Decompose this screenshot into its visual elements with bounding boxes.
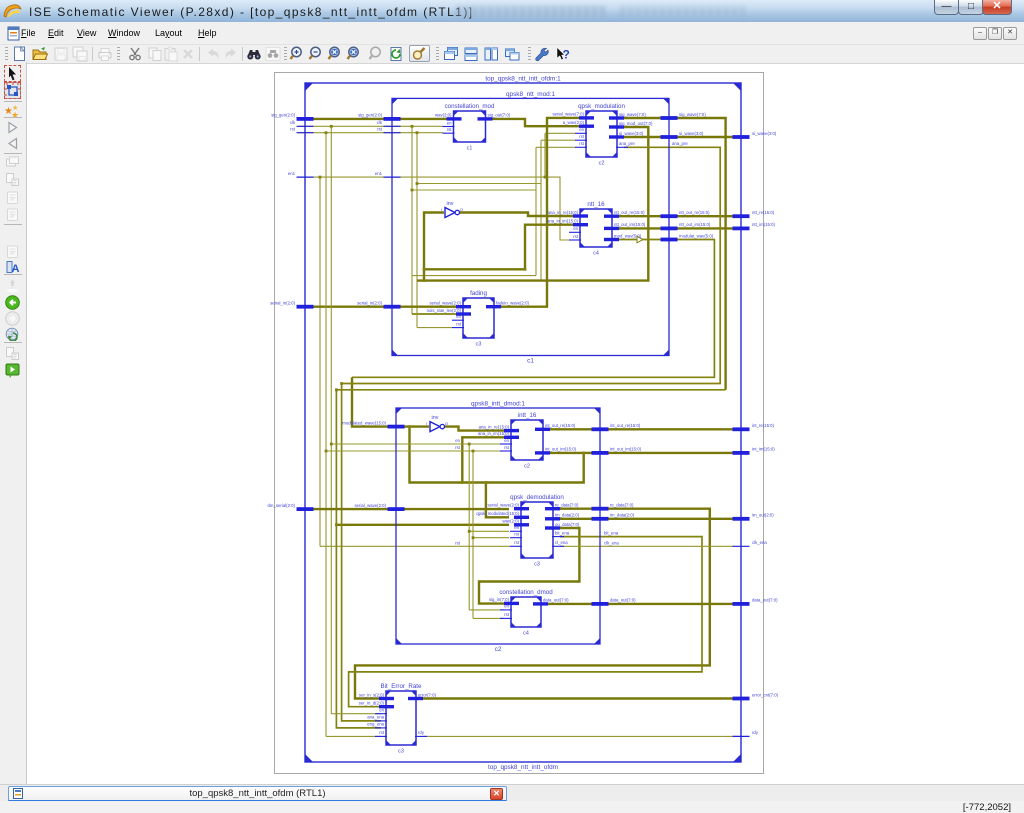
svg-text:inv: inv bbox=[447, 201, 454, 207]
svg-text:sig_gen(2:0): sig_gen(2:0) bbox=[271, 113, 295, 118]
svg-text:en: en bbox=[579, 127, 584, 132]
svg-text:inv: inv bbox=[432, 415, 439, 421]
svg-text:data_out(7:0): data_out(7:0) bbox=[543, 598, 569, 603]
svg-text:ana_in_re(15:0): ana_in_re(15:0) bbox=[479, 424, 510, 429]
svg-text:en: en bbox=[379, 708, 384, 713]
svg-text:wav(2:0): wav(2:0) bbox=[435, 113, 452, 118]
svg-text:I: I bbox=[441, 207, 442, 212]
svg-text:c2: c2 bbox=[495, 646, 502, 653]
svg-text:sig_gen(2:0): sig_gen(2:0) bbox=[358, 113, 382, 118]
svg-text:rst: rst bbox=[573, 234, 579, 239]
svg-text:ntt_out_im(15:0): ntt_out_im(15:0) bbox=[679, 222, 711, 227]
svg-text:a_wav(2:0): a_wav(2:0) bbox=[563, 120, 585, 125]
svg-text:ser_in_d(2:0): ser_in_d(2:0) bbox=[359, 701, 385, 706]
svg-text:si_wave(3:0): si_wave(3:0) bbox=[619, 131, 644, 136]
svg-text:cl_ena: cl_ena bbox=[555, 540, 568, 545]
svg-text:dm_serial(2:0): dm_serial(2:0) bbox=[268, 503, 296, 508]
svg-text:constellation_mod: constellation_mod bbox=[445, 103, 495, 110]
svg-text:data_out(7:0): data_out(7:0) bbox=[752, 598, 778, 603]
svg-text:c4: c4 bbox=[523, 631, 529, 637]
svg-text:rst: rst bbox=[290, 127, 296, 132]
svg-text:re_data(7:0): re_data(7:0) bbox=[555, 503, 579, 508]
svg-text:rst: rst bbox=[455, 445, 461, 450]
svg-text:int_out_im(15:0): int_out_im(15:0) bbox=[545, 447, 577, 452]
svg-text:?: ? bbox=[562, 48, 569, 62]
svg-text:en: en bbox=[514, 525, 519, 530]
svg-text:rdy: rdy bbox=[752, 730, 759, 735]
svg-text:ana_in_im(15:0): ana_in_im(15:0) bbox=[547, 219, 579, 224]
svg-text:rst: rst bbox=[514, 540, 520, 545]
svg-text:clk: clk bbox=[290, 120, 296, 125]
svg-text:ana_in_re(15:0): ana_in_re(15:0) bbox=[548, 210, 579, 215]
svg-text:sig_mod_out(7:0): sig_mod_out(7:0) bbox=[619, 121, 653, 126]
svg-text:ntt_out_re(15:0): ntt_out_re(15:0) bbox=[679, 210, 710, 215]
svg-text:en: en bbox=[456, 314, 461, 319]
svg-text:rst: rst bbox=[379, 730, 385, 735]
svg-text:constellation_dmod: constellation_dmod bbox=[499, 589, 553, 596]
svg-text:sig_wave(7:0): sig_wave(7:0) bbox=[679, 112, 706, 117]
svg-text:si_wave(3:0): si_wave(3:0) bbox=[752, 131, 777, 136]
svg-text:qpsk_demodulation: qpsk_demodulation bbox=[510, 494, 564, 501]
svg-text:int_re(15:0): int_re(15:0) bbox=[752, 423, 775, 428]
svg-text:serial_wave(2:0): serial_wave(2:0) bbox=[354, 503, 386, 508]
svg-text:fadein_wave(2:0): fadein_wave(2:0) bbox=[496, 301, 530, 306]
svg-text:en1: en1 bbox=[375, 171, 383, 176]
svg-text:ou_data(7:0): ou_data(7:0) bbox=[555, 522, 580, 527]
svg-text:ntt_re(15:0): ntt_re(15:0) bbox=[752, 210, 775, 215]
svg-text:★: ★ bbox=[12, 104, 18, 112]
svg-text:c1: c1 bbox=[467, 146, 473, 152]
svg-text:sig_wave(7:0): sig_wave(7:0) bbox=[619, 112, 646, 117]
svg-text:en: en bbox=[447, 120, 452, 125]
svg-text:rst: rst bbox=[456, 321, 462, 326]
svg-text:rst: rst bbox=[579, 141, 585, 146]
svg-text:rst: rst bbox=[377, 127, 383, 132]
svg-text:O: O bbox=[445, 421, 448, 426]
svg-text:mod_wav(5:0): mod_wav(5:0) bbox=[614, 233, 642, 238]
svg-text:bit_ena: bit_ena bbox=[555, 530, 570, 535]
svg-text:eng_ena: eng_ena bbox=[367, 722, 384, 727]
svg-text:im_data(2:0): im_data(2:0) bbox=[555, 513, 580, 518]
svg-text:ntt_16: ntt_16 bbox=[587, 201, 605, 208]
svg-text:en: en bbox=[455, 438, 460, 443]
svg-text:rst: rst bbox=[579, 134, 585, 139]
svg-text:c2: c2 bbox=[599, 161, 605, 167]
svg-text:c3: c3 bbox=[534, 562, 540, 568]
svg-text:ntt_out_re(15:0): ntt_out_re(15:0) bbox=[614, 210, 645, 215]
svg-text:ntt_out_im(15:0): ntt_out_im(15:0) bbox=[614, 222, 646, 227]
svg-text:rst: rst bbox=[455, 541, 461, 546]
svg-text:intt_16: intt_16 bbox=[518, 412, 537, 419]
svg-text:serial_wave(2:0): serial_wave(2:0) bbox=[429, 301, 461, 306]
svg-text:c2: c2 bbox=[524, 464, 530, 470]
svg-text:en: en bbox=[504, 438, 509, 443]
svg-text:clk_ena: clk_ena bbox=[604, 540, 619, 545]
svg-text:fading: fading bbox=[470, 290, 487, 297]
svg-text:I: I bbox=[426, 421, 427, 426]
svg-text:data_out(7:0): data_out(7:0) bbox=[610, 598, 636, 603]
svg-text:int_out_re(15:0): int_out_re(15:0) bbox=[545, 423, 576, 428]
svg-text:A: A bbox=[12, 263, 20, 274]
svg-text:bit_ena: bit_ena bbox=[604, 531, 619, 536]
svg-text:modulat_wav(5:0): modulat_wav(5:0) bbox=[679, 233, 714, 238]
svg-text:ser_in_s(2:0): ser_in_s(2:0) bbox=[359, 692, 385, 697]
svg-text:en: en bbox=[504, 604, 509, 609]
svg-text:en1: en1 bbox=[288, 171, 296, 176]
svg-text:c4: c4 bbox=[593, 251, 599, 257]
svg-text:c3: c3 bbox=[476, 342, 482, 348]
svg-text:ntt_im(15:0): ntt_im(15:0) bbox=[752, 222, 775, 227]
svg-text:qpsk_modulated(15:0): qpsk_modulated(15:0) bbox=[476, 511, 519, 516]
svg-text:nois_rate_lev(2:0): nois_rate_lev(2:0) bbox=[427, 308, 462, 313]
svg-text:rst: rst bbox=[504, 445, 510, 450]
svg-text:Bit_Error_Rate: Bit_Error_Rate bbox=[381, 683, 422, 690]
svg-text:clk_ena: clk_ena bbox=[752, 540, 767, 545]
svg-text:modulated_wave(15:0): modulated_wave(15:0) bbox=[342, 420, 386, 425]
svg-text:O: O bbox=[460, 207, 463, 212]
svg-text:ana_ena: ana_ena bbox=[367, 715, 384, 720]
svg-text:ana_pre: ana_pre bbox=[672, 141, 688, 146]
svg-text:qpsk8_intt_dmod:1: qpsk8_intt_dmod:1 bbox=[471, 401, 525, 408]
svg-text:int_out_im(15:0): int_out_im(15:0) bbox=[610, 447, 642, 452]
svg-text:ana_in_im(15:0): ana_in_im(15:0) bbox=[478, 431, 510, 436]
svg-text:error_cnt(7:0): error_cnt(7:0) bbox=[752, 692, 779, 697]
svg-text:clk: clk bbox=[377, 120, 383, 125]
svg-text:serial_in(2:0): serial_in(2:0) bbox=[270, 301, 295, 306]
svg-text:rst: rst bbox=[504, 612, 510, 617]
svg-text:wav(2:0): wav(2:0) bbox=[503, 519, 520, 524]
svg-text:im_out(2:0): im_out(2:0) bbox=[752, 513, 774, 518]
svg-text:c1: c1 bbox=[527, 358, 534, 365]
svg-text:qpsk8_ntt_mod:1: qpsk8_ntt_mod:1 bbox=[506, 91, 555, 98]
svg-text:serial_wave(2:0): serial_wave(2:0) bbox=[487, 503, 519, 508]
svg-text:qpsk_modulation: qpsk_modulation bbox=[578, 103, 625, 110]
svg-text:sig_out(7:0): sig_out(7:0) bbox=[488, 113, 511, 118]
svg-text:rst: rst bbox=[447, 127, 453, 132]
svg-text:si_wave(3:0): si_wave(3:0) bbox=[679, 131, 704, 136]
svg-text:serial_in(2:0): serial_in(2:0) bbox=[357, 301, 382, 306]
svg-text:im_data(2:0): im_data(2:0) bbox=[610, 513, 635, 518]
svg-text:sig_in(7:0): sig_in(7:0) bbox=[489, 597, 510, 602]
svg-text:error(7:0): error(7:0) bbox=[418, 692, 436, 697]
svg-text:en: en bbox=[573, 226, 578, 231]
svg-text:rst: rst bbox=[514, 532, 520, 537]
svg-text:int_out_re(15:0): int_out_re(15:0) bbox=[610, 423, 641, 428]
svg-text:top_qpsk8_ntt_intt_ofdm: top_qpsk8_ntt_intt_ofdm bbox=[488, 764, 558, 771]
svg-text:int_im(15:0): int_im(15:0) bbox=[752, 447, 775, 452]
svg-text:serial_wave(7:0): serial_wave(7:0) bbox=[552, 112, 584, 117]
svg-text:c3: c3 bbox=[398, 749, 404, 755]
svg-text:ana_pre: ana_pre bbox=[619, 141, 635, 146]
svg-text:top_qpsk8_ntt_intt_ofdm:1: top_qpsk8_ntt_intt_ofdm:1 bbox=[485, 76, 561, 83]
svg-text:rdy: rdy bbox=[418, 730, 425, 735]
svg-text:re_data(7:0): re_data(7:0) bbox=[610, 503, 634, 508]
